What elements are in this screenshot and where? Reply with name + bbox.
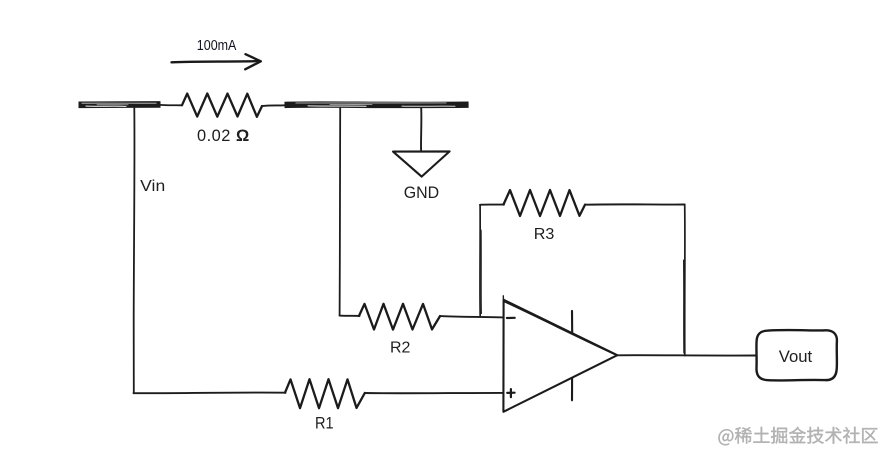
- resistor R1: [285, 379, 365, 408]
- wire: top-left corner to R3: [480, 204, 504, 206]
- node bus left (thick input rail): [79, 103, 161, 106]
- ground symbol: [393, 151, 450, 176]
- wire: corner to R2: [340, 315, 360, 317]
- wire: bottom horizontal from Vin corner to R1: [134, 392, 286, 395]
- wire Vin vertical drop from left bus: [133, 108, 136, 393]
- wire: GND stub from right bus: [420, 108, 422, 151]
- svg-text:GND: GND: [404, 184, 440, 202]
- wire: R1 to op-amp non-inverting input: [365, 392, 503, 394]
- wire: feedback left vertical (junction up to R3): [480, 205, 481, 316]
- wire: shunt resistor to right bus: [262, 104, 285, 107]
- op-amp U1 triangle: [503, 296, 617, 412]
- svg-text:Vout: Vout: [779, 348, 813, 366]
- svg-text:100mA: 100mA: [197, 37, 237, 54]
- wire: branch from right bus down to R2: [339, 108, 342, 316]
- svg-text:0.02 Ω: 0.02 Ω: [197, 127, 250, 145]
- wire: op-amp output to Vout: [617, 354, 756, 356]
- watermark juejin community: [718, 427, 877, 445]
- op-amp power pin tick top: [571, 311, 573, 333]
- Vout box: [756, 330, 836, 380]
- svg-text:R2: R2: [390, 340, 410, 357]
- wire: R3 to feedback right vertical: [585, 203, 685, 205]
- wire: feedback right vertical down to output: [684, 205, 685, 356]
- wire: left bus to shunt resistor: [160, 104, 182, 106]
- resistor R2: [359, 304, 440, 330]
- node bus right (thick rail after shunt): [285, 103, 469, 106]
- op-amp power pin tick bottom: [571, 378, 573, 400]
- op-amp inverting input minus sign: [507, 317, 515, 319]
- svg-text:Vin: Vin: [140, 178, 165, 195]
- resistor R3: [504, 190, 586, 216]
- wire: R2 to op-amp inverting input (junction with feedback): [440, 316, 504, 317]
- svg-text:R3: R3: [534, 226, 555, 243]
- op-amp non-inverting input plus sign: [507, 389, 514, 397]
- resistor 0.02 ohm (shunt): [182, 94, 262, 117]
- svg-text:R1: R1: [315, 415, 334, 433]
- current arrow 100mA: [172, 54, 261, 69]
